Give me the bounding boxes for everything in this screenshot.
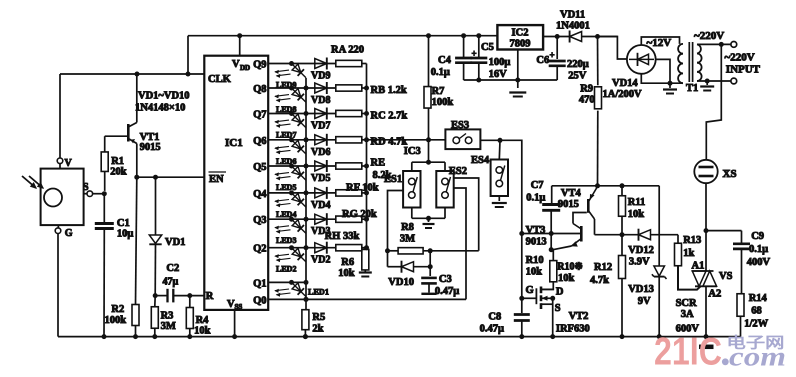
svg-text:25V: 25V bbox=[568, 71, 587, 82]
svg-text:V: V bbox=[65, 158, 73, 169]
svg-text:9V: 9V bbox=[638, 296, 651, 307]
svg-text:10μ: 10μ bbox=[117, 229, 133, 240]
svg-text:Q8: Q8 bbox=[253, 84, 266, 95]
svg-text:com: com bbox=[729, 342, 786, 372]
svg-text:Q1: Q1 bbox=[253, 278, 266, 289]
svg-text:VD1~VD10: VD1~VD10 bbox=[138, 91, 190, 102]
svg-text:C2: C2 bbox=[166, 263, 179, 274]
svg-text:1N4001: 1N4001 bbox=[556, 21, 590, 32]
svg-text:VD11: VD11 bbox=[560, 10, 585, 21]
svg-text:ES4: ES4 bbox=[471, 155, 490, 166]
svg-text:VD12: VD12 bbox=[628, 245, 654, 256]
svg-text:Q2: Q2 bbox=[253, 244, 266, 255]
svg-text:LED2: LED2 bbox=[276, 265, 296, 274]
svg-text:Q0: Q0 bbox=[253, 295, 266, 306]
svg-text:220μ: 220μ bbox=[567, 59, 589, 70]
svg-text:3A: 3A bbox=[681, 309, 694, 320]
svg-text:+: + bbox=[550, 50, 555, 60]
svg-text:1N4148×10: 1N4148×10 bbox=[135, 103, 185, 114]
svg-text:R11: R11 bbox=[628, 197, 646, 208]
svg-text:100k: 100k bbox=[105, 315, 127, 326]
svg-text:C1: C1 bbox=[117, 218, 130, 229]
svg-text:LED3: LED3 bbox=[276, 236, 296, 245]
svg-text:R10※: R10※ bbox=[557, 262, 583, 273]
svg-text:Q6: Q6 bbox=[253, 136, 266, 147]
svg-text:IC1: IC1 bbox=[225, 137, 243, 149]
svg-text:LED7: LED7 bbox=[276, 131, 296, 140]
svg-text:T1: T1 bbox=[686, 83, 698, 94]
svg-text:RC 2.7k: RC 2.7k bbox=[371, 111, 408, 122]
svg-text:~220V: ~220V bbox=[694, 30, 724, 42]
svg-text:100μ: 100μ bbox=[489, 57, 511, 68]
svg-text:VS: VS bbox=[719, 271, 733, 282]
svg-text:D: D bbox=[556, 287, 564, 298]
svg-text:RG 20k: RG 20k bbox=[342, 209, 377, 220]
svg-text:VD2: VD2 bbox=[311, 255, 330, 266]
svg-text:R: R bbox=[206, 291, 214, 302]
svg-text:47μ: 47μ bbox=[163, 277, 179, 288]
svg-text:LED5: LED5 bbox=[276, 183, 296, 192]
svg-text:VD1: VD1 bbox=[165, 237, 185, 248]
svg-text:ES2: ES2 bbox=[449, 166, 467, 177]
svg-text:20k: 20k bbox=[110, 167, 127, 178]
svg-text:R13: R13 bbox=[683, 235, 701, 246]
svg-text:S: S bbox=[83, 182, 89, 193]
svg-text:1k: 1k bbox=[683, 248, 694, 259]
svg-text:10k: 10k bbox=[194, 326, 211, 337]
svg-text:R14: R14 bbox=[749, 293, 768, 304]
svg-text:SCR: SCR bbox=[676, 298, 697, 309]
svg-text:1A/200V: 1A/200V bbox=[603, 89, 643, 100]
svg-text:IRF630: IRF630 bbox=[556, 324, 590, 335]
svg-text:VD13: VD13 bbox=[628, 284, 654, 295]
svg-text:3.9V: 3.9V bbox=[629, 257, 650, 268]
svg-text:VT2: VT2 bbox=[569, 311, 589, 322]
svg-text:~12V: ~12V bbox=[647, 37, 672, 49]
svg-text:VD5: VD5 bbox=[311, 173, 330, 184]
svg-text:0.1μ: 0.1μ bbox=[431, 67, 450, 78]
svg-text:RB 1.2k: RB 1.2k bbox=[371, 85, 407, 96]
svg-text:16V: 16V bbox=[489, 69, 508, 80]
svg-text:VD14: VD14 bbox=[612, 78, 638, 89]
svg-text:0.47μ: 0.47μ bbox=[480, 324, 504, 335]
svg-text:100k: 100k bbox=[432, 97, 454, 108]
svg-text:A2: A2 bbox=[708, 289, 721, 300]
svg-text:9013: 9013 bbox=[526, 237, 547, 248]
svg-text:R9: R9 bbox=[580, 84, 593, 95]
svg-text:7809: 7809 bbox=[510, 39, 531, 50]
svg-text:VD8: VD8 bbox=[311, 95, 330, 106]
svg-text:R12: R12 bbox=[594, 262, 612, 273]
svg-text:10k: 10k bbox=[558, 273, 575, 284]
svg-text:C5: C5 bbox=[481, 42, 494, 53]
svg-text:DD: DD bbox=[240, 64, 250, 72]
svg-text:68: 68 bbox=[751, 306, 762, 317]
svg-text:ES1: ES1 bbox=[384, 174, 402, 185]
svg-text:R2: R2 bbox=[111, 304, 124, 315]
svg-text:R5: R5 bbox=[312, 312, 325, 323]
svg-text:R10: R10 bbox=[526, 255, 544, 266]
svg-text:RE: RE bbox=[371, 158, 386, 169]
svg-text:0.1μ: 0.1μ bbox=[526, 193, 545, 204]
svg-text:9015: 9015 bbox=[140, 142, 161, 153]
svg-text:C4: C4 bbox=[438, 55, 452, 66]
svg-text:R7: R7 bbox=[432, 86, 445, 97]
svg-text:R8: R8 bbox=[401, 222, 414, 233]
svg-text:VT4: VT4 bbox=[561, 188, 582, 199]
svg-text:Q5: Q5 bbox=[253, 162, 266, 173]
svg-text:INPUT: INPUT bbox=[726, 64, 761, 76]
svg-text:10k: 10k bbox=[338, 268, 355, 279]
svg-text:10k: 10k bbox=[628, 209, 645, 220]
svg-text:Q7: Q7 bbox=[253, 110, 266, 121]
svg-text:3M: 3M bbox=[161, 321, 176, 332]
svg-text:IC2: IC2 bbox=[512, 28, 529, 39]
svg-text:400V: 400V bbox=[747, 257, 771, 268]
svg-text:R1: R1 bbox=[111, 156, 124, 167]
svg-text:C7: C7 bbox=[531, 180, 544, 191]
svg-text:C3: C3 bbox=[439, 274, 452, 285]
svg-text:EN: EN bbox=[209, 174, 224, 185]
svg-text:21IC: 21IC bbox=[654, 331, 722, 374]
svg-text:C9: C9 bbox=[751, 231, 764, 242]
svg-text:+: + bbox=[472, 49, 477, 59]
svg-text:VD10: VD10 bbox=[388, 277, 414, 288]
svg-text:G: G bbox=[526, 285, 534, 296]
svg-text:IC3: IC3 bbox=[404, 146, 421, 157]
svg-text:470: 470 bbox=[579, 95, 595, 106]
svg-text:10k: 10k bbox=[526, 267, 543, 278]
svg-text:VD9: VD9 bbox=[311, 71, 330, 82]
svg-text:G: G bbox=[65, 228, 73, 239]
svg-text:RH 33k: RH 33k bbox=[325, 231, 360, 242]
svg-text:LED4: LED4 bbox=[276, 210, 296, 219]
svg-text:LED1: LED1 bbox=[308, 288, 329, 297]
svg-text:R6: R6 bbox=[341, 257, 354, 268]
svg-text:VD7: VD7 bbox=[311, 121, 330, 132]
svg-text:0.1μ: 0.1μ bbox=[749, 244, 768, 255]
svg-text:S: S bbox=[555, 303, 561, 314]
svg-text:1/2W: 1/2W bbox=[744, 319, 768, 330]
svg-text:C6: C6 bbox=[536, 55, 549, 66]
svg-text:RF 10k: RF 10k bbox=[346, 183, 379, 194]
svg-text:Q9: Q9 bbox=[253, 60, 266, 71]
svg-text:0.47μ: 0.47μ bbox=[435, 286, 459, 297]
svg-text:SS: SS bbox=[235, 303, 243, 311]
svg-text:ES3: ES3 bbox=[451, 120, 469, 131]
svg-text:V: V bbox=[232, 59, 240, 70]
svg-text:Q3: Q3 bbox=[253, 215, 266, 226]
svg-text:Q4: Q4 bbox=[253, 189, 267, 200]
svg-text:VT3: VT3 bbox=[526, 225, 546, 236]
svg-text:RA 220: RA 220 bbox=[331, 45, 364, 56]
svg-text:VD6: VD6 bbox=[311, 147, 330, 158]
svg-text:9015: 9015 bbox=[558, 199, 579, 210]
svg-text:CLK: CLK bbox=[208, 74, 232, 85]
svg-text:XS: XS bbox=[723, 168, 737, 180]
svg-text:C8: C8 bbox=[488, 312, 501, 323]
svg-text:4.7k: 4.7k bbox=[590, 275, 609, 286]
svg-text:R4: R4 bbox=[196, 315, 210, 326]
svg-text:VD4: VD4 bbox=[311, 200, 330, 211]
svg-text:2k: 2k bbox=[312, 324, 323, 335]
svg-text:A1: A1 bbox=[692, 261, 705, 272]
svg-text:R3: R3 bbox=[161, 311, 174, 322]
svg-text:3M: 3M bbox=[400, 234, 415, 245]
svg-text:RD 4.7k: RD 4.7k bbox=[371, 137, 408, 148]
svg-text:~220V: ~220V bbox=[725, 52, 755, 64]
